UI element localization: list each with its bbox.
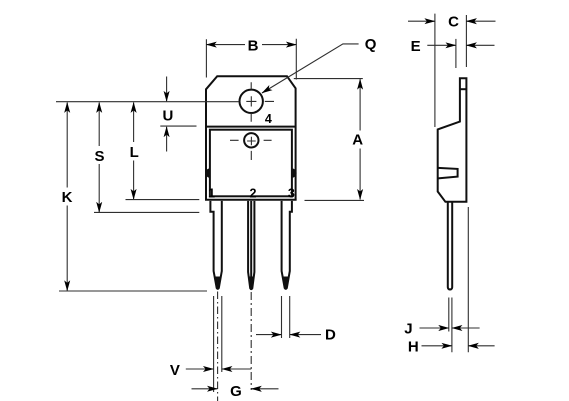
side view: mold notch (438, 168, 458, 179)
dim G arrows (192, 388, 218, 390)
svg-text:Q: Q (365, 36, 377, 53)
svg-text:A: A (352, 132, 363, 149)
dim D arrows (256, 334, 281, 336)
svg-text:G: G (230, 383, 242, 400)
svg-text:K: K (62, 189, 73, 206)
front view: body face inner rectangle (210, 130, 292, 197)
side view: package outline (438, 78, 467, 202)
svg-text:3: 3 (288, 187, 295, 201)
horizontal centerline reference (hole center) (56, 101, 239, 103)
dim E extension line (455, 39, 457, 68)
pin 2 centerline dashed (250, 292, 252, 390)
dim U up arrow (166, 127, 168, 152)
svg-text:C: C (448, 13, 459, 30)
pin 2 (248, 201, 254, 289)
side view: pin (448, 202, 452, 290)
dim B extension lines (206, 39, 296, 80)
dim C arrows (408, 20, 435, 22)
pin 3 extension lines (282, 296, 290, 338)
pin 1 (210, 201, 221, 289)
small hole center cross (247, 137, 256, 146)
dim A reference lines (294, 79, 364, 201)
pin 3 (282, 201, 292, 289)
dim S arrows (98, 103, 100, 147)
dim K arrows (66, 103, 68, 188)
dim L reference line (126, 199, 200, 201)
svg-text:4: 4 (265, 112, 272, 126)
front view: left mold bump (205, 168, 210, 177)
leader Q (262, 44, 359, 93)
mounting hole center cross (246, 96, 256, 106)
pin 1 centerline (217, 292, 219, 401)
svg-text:1: 1 (208, 187, 215, 201)
dim U down arrow (166, 77, 168, 102)
dim V arrows (186, 368, 214, 370)
small hole (244, 133, 258, 147)
dim U reference line (160, 125, 196, 127)
svg-text:J: J (404, 320, 412, 337)
dim C extension lines (435, 14, 467, 127)
svg-text:E: E (411, 38, 421, 55)
dim A arrows (359, 79, 361, 130)
front view: package body outline (206, 76, 296, 200)
svg-text:L: L (130, 144, 139, 161)
dim L arrows (133, 103, 135, 143)
pin 1 extension lines (214, 296, 222, 392)
pin 2 inner line (250, 201, 252, 279)
dim E arrows (427, 44, 456, 46)
mounting hole centerline dashes (251, 82, 274, 121)
svg-text:U: U (162, 107, 173, 124)
svg-text:V: V (170, 362, 180, 379)
front view: body bottom edge (205, 199, 297, 201)
small hole centerline dashes (230, 140, 272, 160)
svg-text:B: B (248, 37, 259, 54)
dim H arrows (422, 345, 452, 347)
front view: body face top edge (206, 126, 296, 128)
side pin extension lines (449, 207, 469, 352)
mounting hole Q (240, 90, 263, 113)
svg-text:S: S (94, 148, 104, 165)
dim S reference line (94, 211, 199, 213)
svg-text:2: 2 (250, 187, 257, 201)
svg-text:H: H (408, 339, 419, 356)
svg-text:D: D (325, 327, 336, 344)
dim B arrows (206, 44, 245, 46)
side view: tab internal line (460, 88, 467, 90)
dim J arrows (420, 327, 449, 329)
dim K reference line (59, 290, 207, 292)
front view: right mold bump (292, 168, 297, 177)
